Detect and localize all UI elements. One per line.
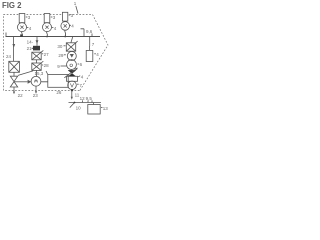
svg-text:3: 3 xyxy=(28,15,31,20)
svg-text:28: 28 xyxy=(44,63,50,68)
svg-text:9,5: 9,5 xyxy=(86,96,93,101)
svg-text:9: 9 xyxy=(57,64,60,69)
svg-text:3: 3 xyxy=(53,15,56,20)
svg-text:30: 30 xyxy=(57,44,63,49)
svg-text:10: 10 xyxy=(76,106,82,111)
svg-text:21-: 21- xyxy=(27,46,34,51)
svg-text:14-: 14- xyxy=(27,40,34,45)
svg-text:13: 13 xyxy=(103,106,109,111)
svg-text:27: 27 xyxy=(44,52,50,57)
svg-text:7: 7 xyxy=(92,42,95,47)
svg-text:4: 4 xyxy=(96,52,99,57)
svg-text:15,3: 15,3 xyxy=(35,71,44,76)
svg-text:9,6: 9,6 xyxy=(86,29,93,34)
svg-text:FIG 2: FIG 2 xyxy=(2,1,22,10)
svg-text:4: 4 xyxy=(29,26,32,31)
svg-text:4: 4 xyxy=(71,24,74,29)
svg-text:3: 3 xyxy=(71,13,74,18)
svg-text:4: 4 xyxy=(81,75,84,80)
svg-text:29: 29 xyxy=(58,53,64,58)
svg-text:12: 12 xyxy=(80,96,86,101)
svg-text:26: 26 xyxy=(56,90,62,95)
svg-text:22: 22 xyxy=(18,93,24,98)
svg-text:1: 1 xyxy=(74,1,77,6)
svg-text:24: 24 xyxy=(6,54,12,59)
svg-text:23: 23 xyxy=(33,93,39,98)
svg-text:6: 6 xyxy=(80,62,83,67)
svg-text:4: 4 xyxy=(54,26,57,31)
